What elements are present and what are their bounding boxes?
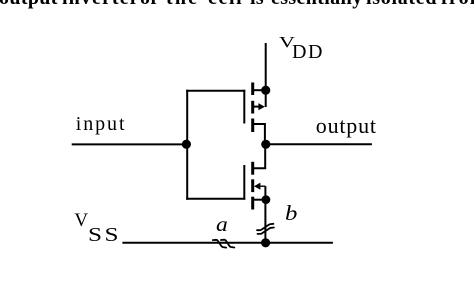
label b (cut mark name) xyxy=(285,201,297,226)
wire VSS rail (horizontal, cut by a) xyxy=(122,242,333,244)
wire: gate bus top horizontal to PMOS gate xyxy=(186,90,245,92)
transistor M2 NMOS (gate bar, channel dashes, drain lead, bulk arrow, source lead) xyxy=(244,162,266,210)
node: output junction dot xyxy=(261,140,270,149)
label output xyxy=(316,113,377,139)
wire VDD vertical (VDD supply down to PMOS source/bulk) xyxy=(265,43,267,107)
cut mark a (two curved slashes across horizontal rail) xyxy=(213,240,235,248)
transistor M1 PMOS (gate bar, channel dashes, source lead, bulk arrow, drain lead) xyxy=(244,83,265,133)
wire: NMOS drain up to output node xyxy=(253,144,265,168)
wire: PMOS drain to output node xyxy=(253,124,265,144)
label VDD xyxy=(279,33,295,52)
label a (cut mark name) xyxy=(216,212,228,237)
node: input junction dot xyxy=(182,140,191,149)
node: VSS rail junction dot xyxy=(261,238,270,247)
wire: gate bus vertical xyxy=(186,90,188,200)
node: NMOS source/bulk junction dot xyxy=(262,195,271,204)
wire input (from left) xyxy=(72,143,187,145)
cut mark b (two curved slashes across vertical wire) xyxy=(257,224,274,234)
label input xyxy=(76,113,127,136)
node: PMOS source / VDD junction dot xyxy=(261,86,270,95)
label VSS xyxy=(74,210,88,232)
wire: NMOS source/bulk down to VSS rail (cut by b) xyxy=(264,186,266,243)
wire output (to the right) xyxy=(266,143,372,145)
wire: gate bus bottom horizontal to NMOS gate xyxy=(186,198,245,200)
